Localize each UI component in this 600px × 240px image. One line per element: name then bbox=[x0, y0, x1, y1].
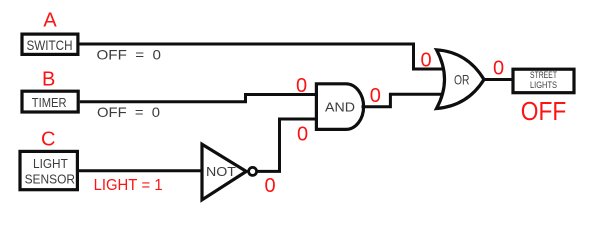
svg-text:OFF = 0: OFF = 0 bbox=[97, 104, 160, 120]
wire LIGHT SENSOR to NOT input bbox=[79, 169, 203, 172]
AND gate bbox=[316, 84, 363, 130]
svg-text:NOT: NOT bbox=[206, 164, 236, 179]
svg-text:0: 0 bbox=[264, 175, 275, 197]
svg-text:A: A bbox=[43, 10, 57, 32]
svg-text:LIGHT: LIGHT bbox=[33, 156, 68, 171]
value label OFF = 0 (timer) bbox=[97, 104, 160, 120]
svg-text:SENSOR: SENSOR bbox=[25, 171, 75, 186]
inverter NOT gate bbox=[202, 144, 246, 200]
node C label bbox=[41, 129, 55, 151]
output state OFF (red) bbox=[521, 96, 567, 126]
value label LIGHT = 1 (red) bbox=[94, 177, 163, 194]
wire SWITCH to OR top input bbox=[80, 44, 445, 69]
output box STREET LIGHTS bbox=[513, 69, 574, 93]
signal 0 at OR output bbox=[493, 58, 504, 80]
input box TIMER bbox=[22, 91, 78, 112]
svg-text:B: B bbox=[42, 69, 55, 91]
NOT output bubble bbox=[249, 167, 257, 175]
svg-text:0: 0 bbox=[493, 58, 504, 80]
signal 0 at NOT output bbox=[264, 175, 275, 197]
signal 0 at AND top input bbox=[296, 75, 307, 97]
wire OR output to STREET LIGHTS bbox=[483, 78, 512, 81]
svg-text:OR: OR bbox=[454, 71, 470, 87]
node B label bbox=[42, 69, 55, 91]
node A label bbox=[43, 10, 57, 32]
signal 0 at AND output bbox=[370, 85, 381, 107]
svg-text:AND: AND bbox=[325, 100, 355, 114]
input box SWITCH bbox=[22, 34, 78, 54]
OR gate bbox=[437, 50, 485, 109]
svg-text:LIGHT = 1: LIGHT = 1 bbox=[94, 177, 163, 194]
input box LIGHT SENSOR bbox=[20, 151, 77, 189]
svg-text:0: 0 bbox=[296, 75, 307, 97]
signal 0 at OR top input bbox=[420, 50, 431, 72]
svg-text:0: 0 bbox=[297, 124, 308, 146]
wire NOT output to AND bottom input bbox=[258, 119, 318, 171]
svg-text:C: C bbox=[41, 129, 55, 151]
wire TIMER to AND top input bbox=[80, 95, 317, 102]
svg-text:SWITCH: SWITCH bbox=[27, 37, 73, 53]
svg-text:LIGHTS: LIGHTS bbox=[530, 80, 557, 91]
signal 0 at AND bottom input bbox=[297, 124, 308, 146]
svg-text:0: 0 bbox=[370, 85, 381, 107]
svg-text:0: 0 bbox=[420, 50, 431, 72]
svg-text:TIMER: TIMER bbox=[32, 95, 67, 110]
value label OFF = 0 (switch) bbox=[97, 47, 162, 63]
svg-text:OFF: OFF bbox=[521, 96, 567, 126]
wire AND output to OR bottom input bbox=[362, 94, 445, 107]
svg-text:OFF = 0: OFF = 0 bbox=[97, 47, 162, 63]
